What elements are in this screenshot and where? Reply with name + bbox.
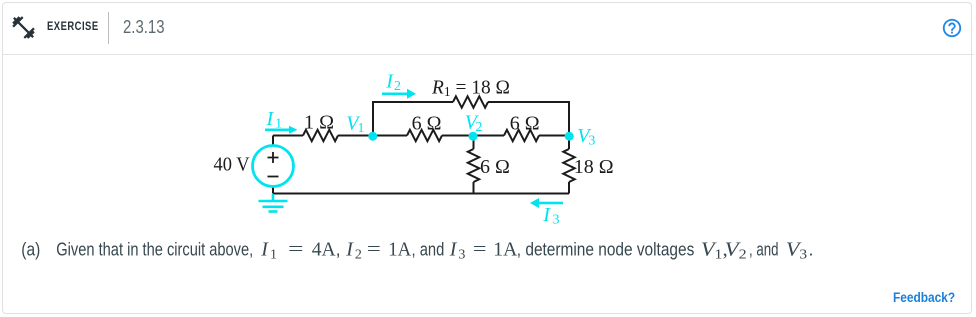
svg-text:Given that in the circuit abov: Given that in the circuit above, — [56, 240, 253, 260]
svg-text:,: , — [336, 240, 341, 260]
plus sign of source — [268, 152, 279, 163]
wire: top branch right and vertical down to V3 — [488, 102, 569, 136]
svg-text:1A: 1A — [493, 239, 518, 261]
feedback link — [893, 289, 955, 305]
svg-text:V1: V1 — [701, 239, 723, 263]
resistor 6 ohm (left horizontal) — [407, 130, 442, 141]
svg-text:6 Ω: 6 Ω — [480, 156, 510, 178]
svg-text:1A: 1A — [388, 239, 412, 261]
voltage source 40 V — [253, 146, 294, 187]
wire: V2 down to vertical 6 ohm — [473, 137, 475, 150]
wire: V1 to 6 ohm — [338, 135, 407, 137]
resistor 18 ohm (vertical) — [563, 149, 574, 182]
wire: source bottom stub — [272, 187, 274, 194]
wire: 6 ohm to second 6 ohm — [442, 135, 504, 137]
svg-text:V3: V3 — [786, 239, 807, 263]
wire: bottom rail — [273, 193, 569, 195]
svg-text:I2: I2 — [345, 239, 362, 263]
wire: vertical 6 ohm to bottom rail — [473, 182, 475, 194]
wire: V3 down to 18 ohm — [568, 136, 570, 150]
wire: 18 ohm to bottom rail — [568, 182, 570, 194]
wire: source top stub — [272, 136, 274, 146]
EXERCISE label — [47, 21, 99, 33]
wire: second 6 ohm to V3 — [539, 135, 569, 137]
svg-text:I3: I3 — [449, 239, 466, 263]
svg-text:(a): (a) — [21, 240, 40, 260]
exercise dumbbell icon — [10, 14, 37, 41]
svg-text:I1: I1 — [260, 239, 277, 263]
svg-text:6 Ω: 6 Ω — [510, 113, 540, 135]
minus sign of source — [268, 176, 279, 178]
caption math text — [260, 239, 807, 263]
resistor 1 ohm — [303, 130, 338, 141]
current arrow I1 — [265, 126, 298, 134]
exercise number 2.3.13 — [123, 17, 165, 38]
wire: top branch left vertical — [373, 102, 453, 137]
current arrow I3 — [530, 198, 563, 208]
svg-text:=: = — [367, 239, 381, 261]
svg-text:V1: V1 — [346, 113, 364, 137]
wire: main horizontal rail left segment — [273, 135, 303, 137]
resistor R1 18 ohm — [453, 96, 488, 107]
svg-text:, and: , and — [412, 240, 445, 260]
svg-text:I3: I3 — [542, 204, 559, 228]
svg-text:, determine node voltages: , determine node voltages — [517, 240, 695, 260]
caption sans text — [21, 240, 813, 260]
svg-text:=: = — [473, 239, 487, 261]
node V3 — [565, 132, 574, 141]
node V1 — [368, 132, 377, 141]
header vertical divider — [108, 12, 109, 44]
svg-text:, and: , and — [749, 240, 779, 260]
svg-text:R1 = 18 Ω: R1 = 18 Ω — [431, 77, 510, 101]
svg-text:V2: V2 — [465, 112, 483, 136]
svg-text:18 Ω: 18 Ω — [574, 156, 614, 178]
svg-text:.: . — [809, 240, 814, 260]
ground — [259, 194, 288, 212]
svg-text:I1: I1 — [266, 108, 283, 132]
resistor 6 ohm (right horizontal) — [504, 130, 539, 141]
resistor 6 ohm (vertical) — [468, 149, 479, 182]
svg-text:V3: V3 — [577, 125, 595, 149]
svg-text:40 V: 40 V — [214, 154, 251, 176]
node V2 — [469, 132, 478, 141]
svg-text:1 Ω: 1 Ω — [304, 112, 334, 134]
svg-text:V2: V2 — [725, 239, 747, 263]
svg-text:I2: I2 — [385, 71, 401, 95]
svg-text:4A: 4A — [312, 239, 336, 261]
header separator — [2, 54, 974, 55]
svg-text:=: = — [288, 239, 304, 261]
current arrow I2 — [382, 89, 416, 99]
help icon (?) — [941, 17, 963, 39]
svg-text:6 Ω: 6 Ω — [412, 113, 442, 135]
